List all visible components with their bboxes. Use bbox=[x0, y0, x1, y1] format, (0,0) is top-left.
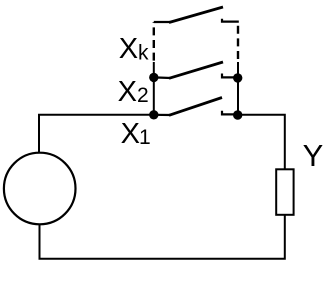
svg-text:2: 2 bbox=[137, 84, 149, 107]
svg-text:1: 1 bbox=[139, 126, 151, 149]
svg-text:X: X bbox=[118, 76, 137, 108]
svg-text:X: X bbox=[121, 118, 140, 150]
svg-text:Y: Y bbox=[303, 138, 324, 173]
svg-text:X: X bbox=[119, 33, 138, 65]
svg-text:k: k bbox=[138, 41, 149, 64]
